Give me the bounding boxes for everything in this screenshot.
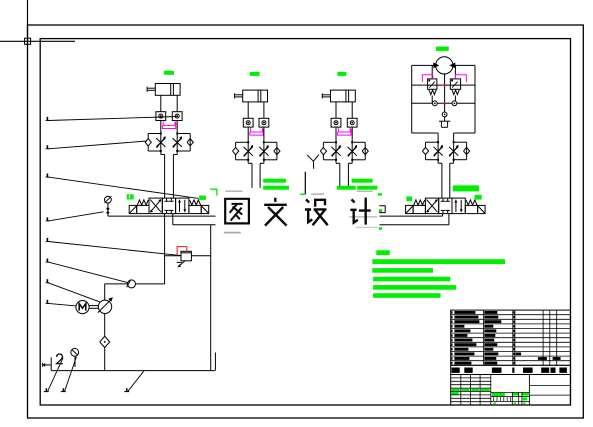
wire valve V4 P drop bbox=[442, 214, 444, 217]
wire step right bbox=[173, 154, 177, 156]
BOM row line bbox=[451, 332, 571, 334]
piston rod 3 bbox=[322, 94, 330, 96]
redacted note bar 2 bbox=[372, 268, 433, 273]
adjustable throttle symbol bbox=[244, 147, 253, 156]
wires to throttle block 1 bbox=[160, 121, 162, 134]
BOM row 11 text bbox=[451, 357, 452, 360]
check valve ball (right) bbox=[274, 148, 280, 155]
BOM row 1 text bbox=[451, 311, 452, 314]
wire step right bbox=[450, 162, 454, 164]
green labels valve row bbox=[263, 179, 286, 183]
valve V1 parallel arrows bbox=[179, 200, 181, 212]
title header row bbox=[451, 364, 571, 366]
wire tank rail T bbox=[173, 224, 449, 226]
green row entries left grid bbox=[452, 389, 460, 391]
BOM row 3 text bbox=[451, 320, 452, 323]
header text blob bbox=[541, 368, 549, 373]
trim mark square bbox=[25, 38, 31, 44]
cross line lower bbox=[412, 102, 475, 104]
centre drain line bbox=[444, 73, 446, 121]
valve V4 left spring box bbox=[413, 205, 425, 213]
green label valve V4 left bbox=[406, 196, 412, 201]
wires to throttle block 3 bbox=[335, 127, 337, 142]
check valve ball (right) bbox=[187, 139, 193, 146]
check valve ball (right) bbox=[362, 148, 368, 155]
wire step left bbox=[248, 162, 252, 164]
relief valve red pilot bbox=[177, 247, 187, 256]
header text blob bbox=[523, 368, 533, 373]
wires down to valve 1 bbox=[164, 155, 166, 199]
valve V4 closed centre symbols bbox=[442, 199, 444, 202]
hydraulic cylinder 2 bbox=[243, 90, 268, 102]
BOM row line bbox=[451, 364, 571, 366]
wire pressure rail P bbox=[108, 215, 443, 217]
wires down to valve 3 bbox=[339, 163, 341, 198]
BOM row 7 text bbox=[451, 339, 452, 342]
BOM row line bbox=[451, 314, 571, 316]
relief valve cartridge right bbox=[454, 65, 456, 79]
relief valve drain arrow bbox=[179, 261, 185, 267]
middle green entries bbox=[492, 393, 505, 396]
check valve ball (left) bbox=[422, 147, 428, 154]
green label valve V4 right bbox=[475, 195, 482, 200]
tank return stub bbox=[214, 353, 216, 371]
valve V3 end box peek bbox=[379, 206, 385, 213]
title block middle box bbox=[491, 391, 530, 393]
valve V4 body squares bbox=[425, 198, 438, 214]
green label station 2 bbox=[250, 72, 260, 76]
wire step left bbox=[336, 162, 340, 164]
throttle valve pair manifold bbox=[148, 133, 161, 135]
pilot hook magenta left bbox=[422, 75, 432, 82]
check valve ball (left) bbox=[233, 148, 239, 155]
BOM row line bbox=[451, 318, 571, 320]
pilot check valve right 3 bbox=[347, 118, 357, 127]
middle small grid bbox=[491, 396, 530, 398]
leader tank item b bbox=[63, 388, 65, 391]
pilot check valve left 1 bbox=[156, 112, 166, 121]
valve V4 parallel arrows bbox=[455, 200, 457, 212]
BOM row line bbox=[451, 337, 571, 339]
adjustable throttle symbol bbox=[173, 138, 182, 147]
pressure gauge G1 bbox=[105, 196, 112, 203]
valve V1 right solenoid bbox=[201, 205, 209, 213]
wire valve V4 T drop bbox=[448, 214, 450, 225]
watermark char tu bbox=[225, 198, 370, 226]
adjustable throttle symbol bbox=[156, 138, 165, 147]
leader callout 1 bbox=[47, 117, 49, 121]
green label station 1 bbox=[164, 71, 174, 75]
hydraulic cylinder 1 bbox=[155, 84, 180, 96]
leader callout 3 bbox=[47, 174, 49, 178]
valve V1 closed centre symbols bbox=[166, 199, 168, 202]
BOM row 9 text bbox=[451, 348, 452, 351]
watermark char wen bbox=[264, 198, 287, 226]
wire step right bbox=[348, 162, 352, 164]
title block right cells bbox=[529, 385, 570, 387]
header text blob bbox=[492, 368, 502, 373]
wires motor unit to valve V4 bbox=[441, 163, 443, 198]
electric motor M1 bbox=[76, 301, 89, 314]
check valve ball (left) bbox=[145, 139, 151, 146]
wire step left bbox=[161, 154, 165, 156]
trim mark horizontal line bbox=[0, 40, 75, 42]
throttle valve pair manifold bbox=[236, 141, 249, 143]
check valve ball (left) bbox=[320, 148, 326, 155]
pilot cross lines 2 bbox=[251, 127, 263, 132]
redacted note bar 3 bbox=[373, 277, 450, 282]
tank breather bbox=[50, 357, 52, 370]
pilot check valve left 2 bbox=[243, 118, 253, 127]
hydraulic motor M bbox=[436, 57, 453, 74]
throttle valve pair manifold bbox=[323, 141, 336, 143]
green label valve V1 right bbox=[199, 196, 206, 200]
adjustable throttle symbol bbox=[331, 147, 340, 156]
wire through throttles bbox=[160, 133, 162, 155]
wire through throttles bbox=[247, 141, 249, 163]
BOM row 5 text bbox=[451, 330, 452, 333]
cylinder port lines 1 bbox=[160, 95, 162, 111]
pilot check valve left 3 bbox=[331, 118, 341, 127]
valve V1 body squares bbox=[149, 198, 162, 214]
cross line upper bbox=[412, 84, 475, 86]
check valve ball (right) bbox=[464, 147, 470, 154]
drain stub line bbox=[304, 172, 306, 195]
directional valve V4 left solenoid bbox=[406, 205, 414, 213]
wire step left bbox=[438, 162, 442, 164]
header text blob bbox=[559, 368, 567, 373]
watermark char ji bbox=[350, 198, 370, 225]
wire step right bbox=[260, 162, 264, 164]
suction filter F1 bbox=[100, 336, 110, 347]
valve V1 right spring box bbox=[189, 205, 201, 213]
wire valve V1 T drop bbox=[172, 214, 174, 225]
drain check circle bbox=[442, 112, 447, 117]
BOM row line bbox=[451, 323, 571, 325]
throttle valve pair manifold bbox=[426, 141, 439, 143]
directional valve V1 left solenoid bbox=[129, 205, 137, 213]
wires to throttle block 2 bbox=[247, 127, 249, 142]
adjustable throttle symbol bbox=[348, 147, 357, 156]
red junction dots bbox=[444, 84, 446, 86]
green label valve V1 left bbox=[127, 194, 134, 199]
valve V4 right solenoid bbox=[478, 205, 486, 213]
piston rod 2 bbox=[235, 94, 243, 96]
BOM row 12 text bbox=[451, 362, 452, 365]
check valve CV1 bbox=[128, 280, 136, 288]
valve V1 crossed arrows bbox=[150, 200, 161, 213]
drawing frame inner border bbox=[40, 39, 570, 405]
pilot check valve right 2 bbox=[259, 118, 269, 127]
pilot cross lines 3 bbox=[338, 127, 350, 132]
redacted note bar 4 bbox=[373, 285, 456, 290]
BOM row line bbox=[451, 328, 571, 330]
valve V1 left spring box bbox=[137, 205, 149, 213]
pilot cross lines 1 bbox=[163, 121, 175, 126]
leader callout 5 bbox=[47, 238, 49, 242]
part label 2 bbox=[57, 354, 63, 364]
adjustable throttle symbol bbox=[259, 147, 268, 156]
BOM row line bbox=[451, 341, 571, 343]
BOM row line bbox=[451, 351, 571, 353]
wires down to valve 2 bbox=[251, 163, 253, 198]
green label station 3 bbox=[337, 72, 346, 76]
wire relief to tank bbox=[191, 255, 210, 257]
header text blob bbox=[512, 368, 514, 373]
BOM row 4 text bbox=[451, 325, 452, 328]
cylinder port lines 3 bbox=[335, 102, 337, 118]
leader callout 7 bbox=[47, 279, 49, 283]
cylinder port lines 2 bbox=[247, 102, 249, 118]
leader callout 4 bbox=[47, 217, 49, 221]
valve V4 crossed arrows bbox=[427, 200, 438, 213]
pilot check valve right 1 bbox=[172, 112, 182, 121]
piston rod 1 bbox=[147, 87, 155, 89]
wire valve V1 P drop bbox=[164, 214, 166, 284]
leader callout 6 bbox=[47, 259, 49, 263]
valve V4 right spring box bbox=[465, 205, 477, 213]
level gauge symbol bbox=[71, 348, 79, 356]
watermark ghost lines bbox=[225, 190, 242, 192]
green label station 4 bbox=[436, 47, 449, 51]
Y drain symbol bbox=[307, 155, 313, 161]
BOM extra cell text bbox=[516, 353, 522, 356]
BOM row line bbox=[451, 360, 571, 362]
redacted note bar 0 bbox=[376, 250, 390, 255]
pump P1 variable bbox=[98, 300, 111, 313]
watermark char she bbox=[305, 199, 328, 225]
wire tank return bbox=[210, 225, 212, 371]
redacted note bar 5 bbox=[373, 293, 441, 298]
leader tank item c bbox=[126, 388, 128, 391]
internal tank symbol bbox=[439, 120, 450, 122]
motor block outlet wires bbox=[437, 133, 439, 142]
pilot hook magenta right bbox=[455, 75, 466, 82]
adjustable throttle symbol bbox=[434, 147, 443, 156]
relief valve cartridge left bbox=[431, 65, 433, 79]
leader callout 2 bbox=[47, 145, 49, 149]
wire through throttles bbox=[437, 141, 439, 163]
wire relief to pump line bbox=[165, 255, 181, 257]
motor block outline bbox=[411, 65, 413, 133]
watermark background bbox=[216, 188, 380, 232]
coupling bbox=[89, 305, 98, 307]
green bracket mark 1 bbox=[210, 189, 217, 195]
hydraulic cylinder 3 bbox=[331, 90, 356, 102]
title block left grid bbox=[460, 375, 462, 406]
pump outlet down bbox=[104, 314, 106, 337]
relief valve RV1 bbox=[181, 251, 191, 260]
BOM row line bbox=[451, 355, 571, 357]
header text blob bbox=[464, 368, 472, 373]
leader tank item a bbox=[46, 388, 48, 391]
BOM row 10 text bbox=[451, 353, 452, 356]
BOM row 2 text bbox=[451, 316, 452, 319]
green edge dashes bbox=[378, 193, 382, 195]
trim mark vertical line bbox=[27, 0, 29, 44]
leader callout 8 bbox=[47, 300, 49, 304]
header text blob bbox=[452, 368, 460, 373]
oil tank top line bbox=[51, 370, 215, 372]
header text blob bbox=[551, 368, 556, 373]
BOM row 6 text bbox=[451, 334, 452, 337]
shuttle check circles bbox=[432, 101, 437, 106]
title block outline bbox=[451, 310, 571, 405]
adjustable throttle symbol bbox=[449, 147, 458, 156]
middle green small bbox=[522, 397, 527, 400]
pump suction line bbox=[105, 283, 165, 285]
redacted note bar 1 bbox=[372, 259, 505, 264]
wire through throttles bbox=[335, 141, 337, 163]
BOM row line bbox=[451, 346, 571, 348]
BOM column lines bbox=[483, 310, 485, 365]
BOM row 8 text bbox=[451, 343, 452, 346]
